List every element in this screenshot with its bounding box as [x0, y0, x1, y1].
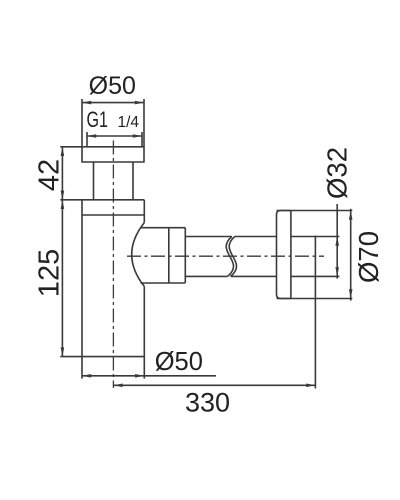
body left edge [81, 200, 83, 379]
svg-text:G1: G1 [87, 107, 109, 132]
arrow Ø50 bottom left [82, 374, 91, 378]
body bottom ring line + left extension [60, 356, 144, 358]
dim 42: top extension line [60, 146, 82, 148]
arrow Ø50 top left [82, 101, 91, 105]
svg-text:Ø32: Ø32 [322, 147, 353, 199]
outlet nut top edge [141, 227, 186, 229]
centerline horizontal (pipe axis) [127, 255, 324, 257]
arrow 330 left [113, 384, 122, 388]
wall flange bottom edge + extension [277, 298, 353, 300]
pipe break squiggle right [229, 237, 236, 277]
dim 42/125: shared dimension line [61, 147, 63, 357]
svg-text:125: 125 [34, 249, 66, 297]
body top edge + left extension [60, 199, 144, 201]
inlet neck [93, 162, 95, 200]
outlet nut band line [168, 228, 170, 283]
svg-text:1/4: 1/4 [118, 114, 140, 131]
wall flange top edge + extension [277, 210, 353, 212]
arrow Ø50 bottom right [135, 374, 144, 378]
pipe bottom edge segments [185, 275, 227, 277]
arrow 42 top [61, 147, 65, 156]
dim 330: line [113, 384, 315, 386]
wall flange disc inner edge [290, 211, 292, 299]
pipe break squiggle left [226, 237, 233, 277]
arrow 125 bottom [61, 347, 65, 356]
arrow G1 right [133, 134, 142, 138]
dim Ø32: line [336, 204, 338, 279]
outlet nut right edge [184, 228, 186, 283]
centerline vertical (bottle axis) [112, 141, 114, 389]
dim Ø70: line [350, 209, 352, 301]
svg-text:42: 42 [34, 159, 66, 191]
dim G1 1/4: line [87, 135, 142, 137]
arrow Ø32 bottom [335, 267, 339, 276]
inlet flange (top nut) [82, 147, 144, 162]
arrow Ø70 bottom [349, 289, 353, 298]
pipe top edge segments [185, 236, 232, 238]
dim Ø50 bottom: line (merged with body bottom edge) [82, 375, 216, 377]
arrow 125 top [61, 200, 65, 209]
dim G1 1/4: extension lines [86, 132, 88, 147]
arrow Ø50 top right [135, 101, 144, 105]
svg-text:Ø70: Ø70 [353, 231, 384, 283]
body right edge lower segment [143, 286, 145, 378]
svg-text:Ø50: Ø50 [155, 348, 203, 376]
arrow G1 left [87, 134, 96, 138]
dim Ø50 top: line [82, 102, 144, 104]
arrow Ø32 top [335, 237, 339, 246]
svg-text:330: 330 [185, 388, 230, 418]
body cap underside line [82, 214, 144, 216]
body right edge upper segment [143, 200, 145, 223]
pipe end edge + extension down [314, 236, 316, 389]
wall flange disc [277, 211, 291, 299]
arrow 330 right [306, 384, 315, 388]
arrow 42 bottom [61, 191, 65, 200]
outlet nut bottom edge [141, 282, 186, 284]
dim Ø50 top: extension lines [81, 99, 83, 147]
arrow Ø70 top [349, 211, 353, 220]
svg-text:Ø50: Ø50 [89, 72, 136, 100]
outlet joint arc (nut silhouette on body) [132, 223, 145, 287]
